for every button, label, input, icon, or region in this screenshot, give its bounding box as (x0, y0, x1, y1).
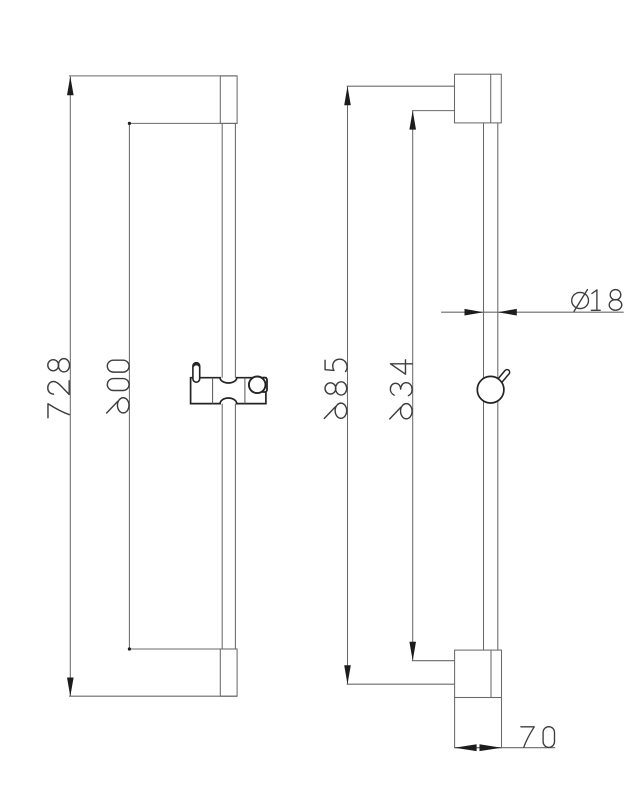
arrow 70 left (455, 744, 477, 751)
slider divider right (244, 378, 246, 404)
dimension 685 extension top (347, 85, 455, 87)
holder ring (front view) (249, 377, 266, 394)
slider body (front view) (191, 378, 266, 404)
dimension 70 line (455, 747, 556, 749)
rail left line (side view) (483, 123, 485, 379)
arrow 728 up (67, 76, 74, 95)
arrow diameter18 left (498, 309, 517, 316)
bottom base flange (side view) (455, 698, 502, 748)
label 634 (390, 360, 412, 419)
dimension 685 extension bottom (347, 683, 455, 685)
dimension 634 extension bottom (412, 660, 455, 662)
arrow 70 right (480, 744, 502, 751)
arrow 634 down (409, 642, 416, 661)
slider ball (side view) (477, 376, 504, 403)
dimension 600 end dot top (128, 122, 131, 125)
dimension 728 line (69, 76, 71, 696)
slider knob stem (side view) (496, 369, 511, 386)
holder clamp piece (front view) (261, 378, 267, 392)
arrow 685 down (344, 665, 351, 684)
label 728 (48, 359, 70, 418)
dimension 728 extension line bottom (69, 695, 237, 697)
rail right line (side view) (497, 123, 499, 379)
bottom cap (front view) (220, 649, 237, 696)
rail left line (front view) (221, 123, 223, 377)
arrow diameter18 right (465, 309, 484, 316)
arrow 728 down (67, 678, 74, 697)
arrow 685 up (344, 86, 351, 105)
label diameter 18 (572, 290, 622, 312)
bottom wall bracket inner line (490, 650, 492, 697)
top wall bracket (side view) (455, 74, 502, 123)
label 600 (107, 360, 129, 413)
bottom wall bracket (side view) (455, 650, 502, 697)
arrow 634 up (409, 111, 416, 130)
dimension 634 line (412, 111, 414, 661)
dimension 685 line (347, 86, 349, 684)
dimension 634 extension top (412, 110, 455, 112)
rail right line (front view) (234, 123, 236, 377)
dimension 600 end dot bottom (128, 647, 131, 650)
hook pin top rim (193, 364, 199, 366)
top wall bracket inner line (490, 74, 492, 123)
label 685 (324, 359, 347, 418)
dimension diameter 18 line (441, 311, 624, 313)
dimension 728 extension line top (69, 75, 237, 77)
top cap (front view) (220, 76, 237, 124)
hook pin on slider (193, 363, 200, 383)
dimension 600 extension bottom / cap topside (129, 648, 237, 650)
label 70 (521, 727, 555, 748)
slider divider left (212, 378, 214, 404)
dimension 600 line (128, 123, 130, 649)
dimension 600 extension top / cap underside (129, 122, 237, 124)
